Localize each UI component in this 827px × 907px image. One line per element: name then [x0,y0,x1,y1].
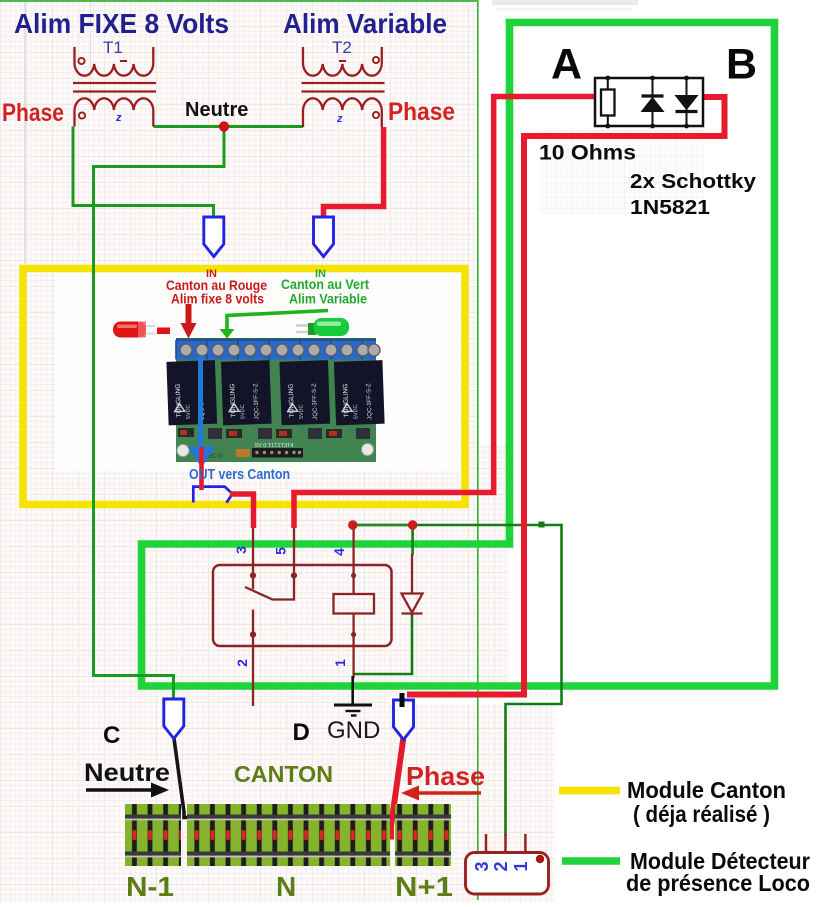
node junction red dots above relay [353,524,413,527]
svg-text:JQC-3FF-S-Z: JQC-3FF-S-Z [253,383,260,420]
faint grid patch inside detector region [540,128,704,214]
white band below frame bottom [390,696,772,704]
diode D2 schottky down [676,78,698,126]
svg-text:TONGLING: TONGLING [288,383,296,417]
relay module photo: terminal strip [176,340,376,360]
blue wire down from terminal [198,356,203,448]
wire green neutre down-left-down to connector C [94,127,225,701]
svg-text:3: 3 [472,861,492,871]
svg-text:Module Canton: Module Canton [627,777,786,803]
svg-text:2: 2 [491,861,511,871]
relay module photo: PCB board [166,338,384,462]
track section N-1 [125,804,181,866]
svg-text:OUT vers Canton: OUT vers Canton [189,467,290,483]
track section N [187,804,390,866]
wire dark green diode bottom to pin 1 net [353,614,412,675]
LED red [113,322,170,338]
svg-text:z: z [115,112,122,124]
relay pin 4 lead [352,525,354,594]
svg-text:TONGLING: TONGLING [229,383,237,417]
arrow green canton au vert [227,311,328,331]
svg-text:1: 1 [511,861,531,871]
transformer T1 [73,47,156,127]
white patch photo background [55,273,460,471]
relay pin 3 lead [252,528,254,576]
relay pin 1 lead [352,614,354,679]
white patch bottom right [555,692,827,902]
arrow phase red [417,791,481,794]
detector component box [595,78,703,126]
faint cropped text remnant top [492,0,638,5]
transformer T2 [302,47,385,127]
wire red D connector to track N [377,737,404,837]
wire dark green from relay node to connector 321 pin 2 [413,525,562,836]
relay module photo: relay 4 [334,360,385,425]
svg-text:TONGLING: TONGLING [175,384,183,418]
ground symbol [334,705,372,716]
svg-text:de présence Loco: de présence Loco [626,870,810,896]
connector IN1 blue [204,217,224,257]
wire thin green top/right rail [0,1,478,900]
svg-text:5VDC: 5VDC [185,404,192,419]
svg-text:1N5821: 1N5821 [630,196,710,219]
svg-text:z: z [336,113,343,125]
diode D1 schottky up [642,78,664,126]
svg-text:10 Ohms: 10 Ohms [539,142,636,165]
svg-text:N: N [276,871,296,902]
svg-text:JQC-3FF-S-Z: JQC-3FF-S-Z [366,383,373,420]
svg-text:N-1: N-1 [126,871,174,902]
connector C blue [164,699,184,739]
svg-text:5: 5 [273,547,289,555]
svg-text:2x Schottky: 2x Schottky [630,170,757,193]
svg-text:T2: T2 [332,38,352,57]
white patch inside frame lower [509,445,827,692]
relay module photo: relay 2 [221,360,272,425]
legend yellow line [559,787,620,795]
relay pin 5 lead [293,528,295,576]
relay module photo: relay 1 [166,360,217,425]
wire black neutre C to track [174,737,192,818]
faint major gridline left [24,0,26,264]
svg-text:2: 2 [234,659,250,667]
connector IN2 blue [314,217,334,257]
svg-text:GND: GND [327,717,380,744]
relay module photo: relay 3 [279,360,330,425]
svg-text:Phase: Phase [388,98,455,126]
white patch right side top [479,0,827,445]
svg-text:4: 4 [331,548,347,556]
relay pin 2 lead [252,635,254,707]
svg-text:1: 1 [332,659,348,667]
LED green [296,318,349,336]
wire dark green node to flyback diode anode [411,525,414,555]
svg-text:T1: T1 [103,38,123,57]
wire red detector B-side down to track phase D [407,97,725,695]
arrow red canton au rouge [186,304,192,324]
svg-text:JQC-3FF-S-Z: JQC-3FF-S-Z [312,383,319,420]
connector 321 [466,834,549,894]
svg-text:Alim fixe 8 volts: Alim fixe 8 volts [171,291,264,307]
connector D blue [394,700,414,740]
svg-text:Alim Variable: Alim Variable [283,8,447,39]
relay K1 schematic box [213,565,392,646]
svg-text:N+1: N+1 [395,871,453,902]
wire red T2 phase to IN connector 2 [324,127,384,218]
svg-text:5VDC: 5VDC [353,404,360,419]
svg-text:A: A [551,41,582,89]
junction dark green [539,522,545,528]
wire green neutre bus T1-T2 [154,125,304,128]
ground black stem [351,676,354,705]
wire red OUT plug to relay pin 3 [230,494,254,528]
OUT plug symbol [193,487,232,503]
relay coil junction dots [351,573,356,578]
pin junction dots of detector box [605,76,689,129]
node Neutre junction [219,121,229,131]
svg-text:5VDC: 5VDC [240,404,247,419]
svg-text:Alim Variable: Alim Variable [289,291,367,307]
svg-text:B: B [726,41,757,89]
svg-text:Neutre: Neutre [185,99,248,121]
svg-text:D: D [293,719,310,746]
resistor 10 Ohms [601,78,615,126]
svg-text:Alim FIXE 8 Volts: Alim FIXE 8 Volts [14,8,229,39]
relay module photo: mounting holes [177,445,189,457]
svg-text:TONGLING: TONGLING [342,383,350,417]
relay coil [334,594,375,614]
svg-text:5VDC: 5VDC [298,404,305,419]
arrow neutre black [86,788,152,791]
wire red detector A-side to relay pin 5 [294,97,595,529]
svg-text:3: 3 [233,546,249,554]
module canton yellow box [23,269,465,505]
legend green line [562,857,620,865]
relay module photo: SMD components [178,428,370,439]
svg-text:Phase: Phase [2,99,64,127]
module detecteur green frame [142,23,775,687]
blue arrow OUT head [188,447,216,468]
flyback diode dark red [402,554,423,616]
track section N+1 [395,804,451,866]
svg-text:( déja réalisé ): ( déja réalisé ) [633,801,770,827]
svg-text:CANTON: CANTON [234,761,333,787]
relay switch contacts [245,573,297,637]
wire green T1 phase to IN connector 1 [73,127,214,218]
black stub in connector D [400,693,405,707]
svg-text:Neutre: Neutre [84,759,170,787]
svg-text:C: C [103,722,120,749]
wire red OUT connector through blue arrow [199,447,204,490]
